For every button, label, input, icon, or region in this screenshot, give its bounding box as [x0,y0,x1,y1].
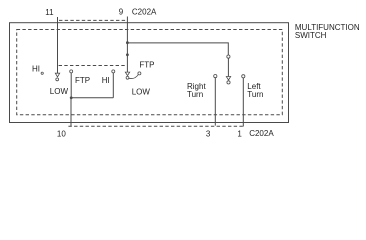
svg-text:11: 11 [45,8,54,17]
svg-text:C202A: C202A [249,129,274,138]
svg-text:C202A: C202A [132,8,157,17]
svg-text:HI: HI [32,65,40,74]
svg-text:1: 1 [237,129,242,138]
svg-text:10: 10 [57,129,66,138]
svg-text:3: 3 [206,129,211,138]
svg-text:FTP: FTP [139,61,154,70]
svg-text:LOW: LOW [132,87,151,96]
svg-text:LOW: LOW [50,87,69,96]
svg-text:SWITCH: SWITCH [295,31,327,40]
svg-text:HI: HI [102,76,110,85]
svg-text:Turn: Turn [187,90,203,99]
svg-text:FTP: FTP [75,76,90,85]
svg-text:9: 9 [119,8,124,17]
svg-text:Turn: Turn [247,90,263,99]
